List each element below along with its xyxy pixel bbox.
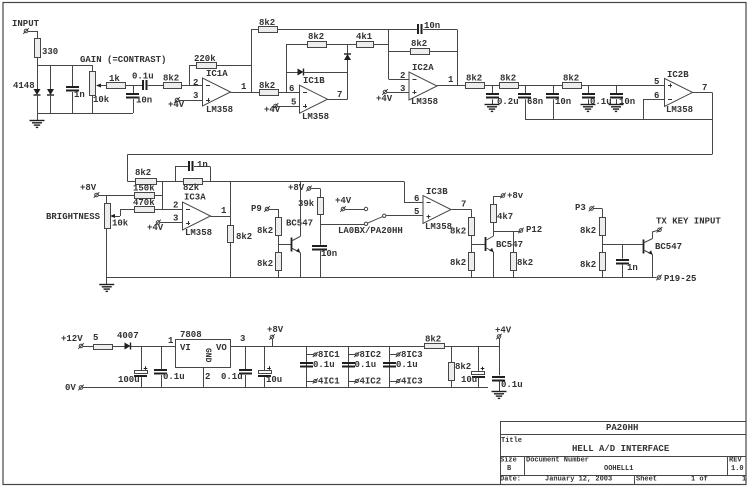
svg-text:1n: 1n: [627, 263, 638, 273]
svg-text:0.1u: 0.1u: [396, 360, 418, 370]
svg-text:150k: 150k: [133, 184, 155, 194]
svg-text:10u: 10u: [266, 375, 282, 385]
svg-text:Document Number: Document Number: [526, 457, 589, 465]
svg-text:0.1u: 0.1u: [163, 372, 185, 382]
svg-text:GAIN (=CONTRAST): GAIN (=CONTRAST): [80, 55, 166, 65]
svg-text:3: 3: [193, 91, 198, 101]
svg-text:4IC1: 4IC1: [318, 377, 340, 387]
svg-text:P3: P3: [575, 203, 586, 213]
svg-text:GND: GND: [203, 348, 212, 363]
svg-text:6: 6: [414, 194, 419, 204]
svg-text:0V: 0V: [65, 383, 76, 393]
svg-text:8k2: 8k2: [236, 232, 252, 242]
svg-text:8k2: 8k2: [411, 39, 427, 49]
svg-text:8k2: 8k2: [257, 226, 273, 236]
svg-text:1 of: 1 of: [691, 476, 708, 484]
svg-text:IC2A: IC2A: [412, 63, 434, 73]
svg-text:8IC3: 8IC3: [401, 350, 423, 360]
svg-text:8k2: 8k2: [450, 258, 466, 268]
svg-text:BC547: BC547: [286, 219, 313, 229]
svg-text:5: 5: [291, 98, 296, 108]
svg-text:10n: 10n: [555, 97, 571, 107]
svg-text:0.1u: 0.1u: [355, 360, 377, 370]
svg-text:P9: P9: [251, 204, 262, 214]
svg-text:5: 5: [414, 207, 419, 217]
svg-text:8k2: 8k2: [466, 74, 482, 84]
svg-text:+8V: +8V: [80, 183, 97, 193]
svg-text:7808: 7808: [180, 330, 202, 340]
svg-text:1: 1: [241, 82, 247, 92]
svg-text:+8V: +8V: [288, 183, 305, 193]
svg-text:+4V: +4V: [168, 100, 185, 110]
svg-text:HELL A/D INTERFACE: HELL A/D INTERFACE: [572, 444, 670, 454]
svg-text:3: 3: [240, 334, 245, 344]
svg-text:10k: 10k: [93, 95, 110, 105]
svg-text:PA20HH: PA20HH: [606, 423, 638, 433]
svg-text:+4V: +4V: [495, 326, 512, 336]
svg-text:0.1u: 0.1u: [221, 372, 243, 382]
svg-text:1: 1: [168, 336, 174, 346]
svg-text:10n: 10n: [619, 97, 635, 107]
svg-text:LA0BX/PA20HH: LA0BX/PA20HH: [338, 226, 403, 236]
svg-text:2: 2: [205, 372, 210, 382]
svg-text:BRIGHTNESS: BRIGHTNESS: [46, 212, 101, 222]
svg-text:VO: VO: [216, 343, 227, 353]
svg-text:39k: 39k: [298, 199, 315, 209]
svg-text:5: 5: [93, 333, 98, 343]
svg-text:+8V: +8V: [267, 325, 284, 335]
svg-text:VI: VI: [180, 343, 191, 353]
svg-text:82k: 82k: [183, 183, 200, 193]
svg-text:+12V: +12V: [61, 334, 83, 344]
svg-text:7: 7: [702, 83, 707, 93]
svg-text:LM358: LM358: [206, 105, 233, 115]
svg-text:IC1A: IC1A: [206, 69, 228, 79]
svg-text:IC3B: IC3B: [426, 187, 448, 197]
svg-text:10k: 10k: [112, 219, 129, 229]
svg-text:1: 1: [221, 206, 227, 216]
svg-text:8IC1: 8IC1: [318, 350, 340, 360]
svg-text:10n: 10n: [136, 96, 152, 106]
svg-text:0.1u: 0.1u: [501, 380, 523, 390]
svg-text:8k2: 8k2: [135, 168, 151, 178]
svg-text:0.1u: 0.1u: [313, 360, 335, 370]
svg-text:8k2: 8k2: [257, 259, 273, 269]
svg-text:Title: Title: [501, 437, 522, 445]
svg-text:OOHELL1: OOHELL1: [604, 465, 633, 473]
svg-text:8k2: 8k2: [450, 227, 466, 237]
svg-text:Size: Size: [500, 457, 517, 465]
svg-text:Sheet: Sheet: [636, 476, 657, 484]
svg-text:LM358: LM358: [411, 97, 438, 107]
svg-text:BC547: BC547: [496, 240, 523, 250]
svg-text:0.1u: 0.1u: [132, 72, 154, 82]
svg-text:8k2: 8k2: [517, 258, 533, 268]
svg-text:P12: P12: [526, 225, 542, 235]
svg-text:0.1u: 0.1u: [590, 97, 612, 107]
svg-text:2: 2: [173, 201, 178, 211]
svg-text:8k2: 8k2: [580, 226, 596, 236]
svg-text:100u: 100u: [118, 375, 140, 385]
svg-text:4IC3: 4IC3: [401, 377, 423, 387]
svg-text:1: 1: [742, 476, 746, 484]
svg-text:LM358: LM358: [666, 105, 693, 115]
svg-text:10n: 10n: [321, 249, 337, 259]
svg-text:+4V: +4V: [264, 105, 281, 115]
svg-text:Date:: Date:: [500, 476, 521, 484]
svg-text:8k2: 8k2: [163, 74, 179, 84]
svg-text:+4V: +4V: [335, 196, 352, 206]
svg-text:LM358: LM358: [302, 112, 329, 122]
svg-text:0.2u: 0.2u: [497, 97, 519, 107]
svg-text:+4V: +4V: [376, 94, 393, 104]
svg-text:68n: 68n: [527, 97, 543, 107]
svg-text:220k: 220k: [194, 54, 216, 64]
svg-text:January 12, 2003: January 12, 2003: [545, 476, 612, 484]
svg-text:6: 6: [289, 84, 294, 94]
svg-text:8k2: 8k2: [425, 335, 441, 345]
svg-text:8k2: 8k2: [500, 74, 516, 84]
svg-text:1n: 1n: [74, 90, 85, 100]
svg-text:8IC2: 8IC2: [360, 350, 382, 360]
svg-text:8k2: 8k2: [259, 81, 275, 91]
svg-text:TX KEY INPUT: TX KEY INPUT: [656, 217, 721, 227]
svg-text:8k2: 8k2: [259, 18, 275, 28]
svg-text:LM358: LM358: [185, 228, 212, 238]
svg-text:4007: 4007: [117, 331, 139, 341]
svg-text:4k7: 4k7: [497, 212, 513, 222]
svg-text:470k: 470k: [133, 198, 155, 208]
svg-text:IC1B: IC1B: [303, 76, 325, 86]
svg-text:1.0: 1.0: [731, 465, 744, 473]
svg-text:IC3A: IC3A: [184, 193, 206, 203]
svg-text:7: 7: [461, 200, 466, 210]
svg-text:+8v: +8v: [507, 191, 524, 201]
svg-text:7: 7: [337, 90, 342, 100]
svg-text:8k2: 8k2: [308, 32, 324, 42]
svg-text:+4V: +4V: [147, 223, 164, 233]
svg-text:5: 5: [654, 77, 659, 87]
svg-text:8k2: 8k2: [455, 362, 471, 372]
svg-text:IC2B: IC2B: [667, 70, 689, 80]
svg-text:REV: REV: [729, 457, 742, 465]
svg-text:8k2: 8k2: [580, 260, 596, 270]
svg-text:4k1: 4k1: [356, 32, 373, 42]
svg-text:330: 330: [42, 47, 58, 57]
svg-text:INPUT: INPUT: [12, 19, 40, 29]
svg-text:4148: 4148: [13, 81, 35, 91]
svg-text:4IC2: 4IC2: [360, 377, 382, 387]
svg-text:1n: 1n: [197, 160, 208, 170]
svg-text:10u: 10u: [461, 375, 477, 385]
svg-text:P19-25: P19-25: [664, 274, 696, 284]
svg-text:1: 1: [448, 75, 454, 85]
svg-text:2: 2: [193, 78, 198, 88]
svg-text:1k: 1k: [109, 74, 120, 84]
svg-text:BC547: BC547: [655, 242, 682, 252]
svg-text:LM358: LM358: [425, 222, 452, 232]
svg-text:8k2: 8k2: [563, 74, 579, 84]
